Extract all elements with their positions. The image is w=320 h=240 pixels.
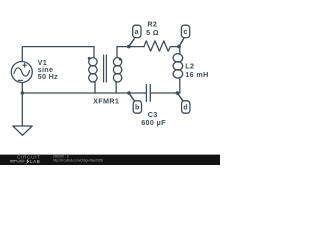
node b pointer [129, 93, 134, 101]
resistor R2 [144, 41, 179, 51]
svg-text:5 Ω: 5 Ω [146, 28, 159, 37]
junction dot (V1 / ground) [21, 91, 24, 94]
primary winding [93, 47, 95, 58]
node a pointer [129, 39, 135, 47]
junction node c [177, 45, 181, 49]
junction node b [127, 91, 131, 95]
polarity dot primary [88, 57, 91, 60]
svg-text:c: c [183, 29, 187, 36]
svg-text:LAB: LAB [30, 159, 40, 165]
transformer XFMR1 [88, 47, 122, 93]
node d pointer [177, 93, 182, 101]
node b box [133, 101, 141, 113]
footer logo waves [10, 161, 17, 162]
capacitor C3 plates [146, 85, 150, 102]
wire secondary top to node a junction [117, 46, 144, 48]
wire top left (V1 top to XFMR1 primary top) [22, 47, 94, 62]
svg-text:50 Hz: 50 Hz [38, 72, 59, 81]
svg-text:d: d [183, 104, 188, 111]
junction node d [176, 91, 180, 95]
junction node a [127, 45, 131, 49]
ground [13, 93, 32, 135]
secondary winding [116, 47, 118, 58]
node a box [133, 25, 141, 37]
voltage source V1 [11, 62, 32, 83]
polarity dot secondary [119, 58, 122, 61]
svg-text:600 µF: 600 µF [141, 118, 166, 127]
wire bottom left (V1 bottom to XFMR1 primary bottom) [22, 83, 95, 93]
footer logo bolt [26, 159, 30, 164]
svg-text:b: b [135, 104, 140, 111]
node c pointer [179, 39, 184, 47]
svg-text:a: a [135, 29, 139, 36]
footer bar [0, 155, 220, 165]
inductor L2 [173, 47, 183, 93]
svg-text:XFMR1: XFMR1 [93, 97, 119, 106]
node d box [182, 101, 190, 113]
svg-text:hltp:⁄⁄circuitlab.com/c66gv46a: hltp:⁄⁄circuitlab.com/c66gv46ae9353 [53, 158, 103, 162]
core [104, 55, 107, 82]
wire capacitor right (C3 to d junction) [150, 92, 177, 94]
wire capacitor left (b junction to C3) [95, 92, 146, 94]
node c box [181, 25, 189, 37]
svg-text:16 mH: 16 mH [185, 70, 208, 79]
